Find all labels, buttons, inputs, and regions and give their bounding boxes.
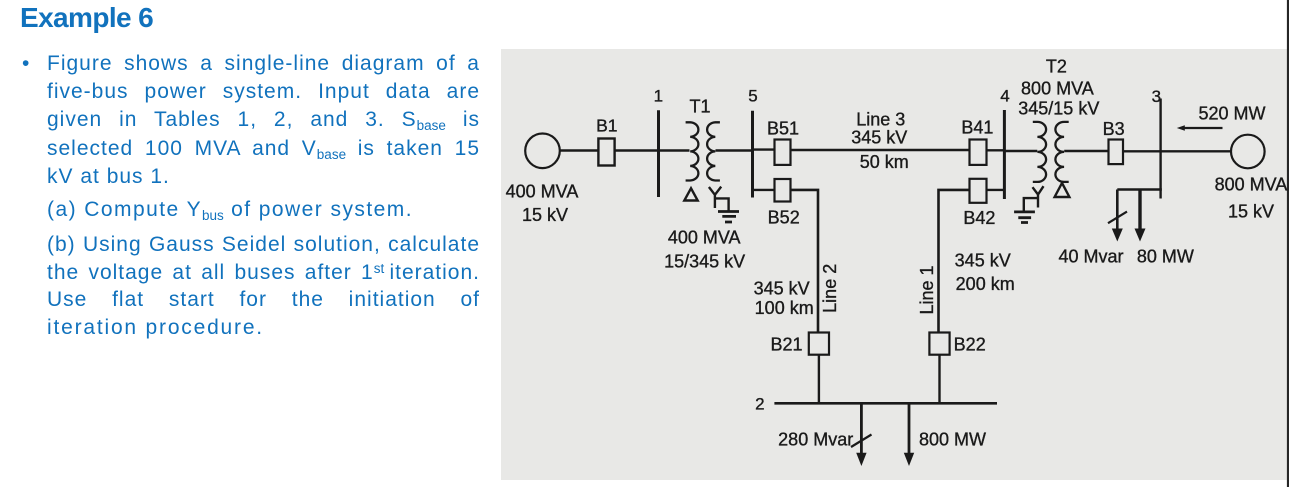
- svg-text:B1: B1: [596, 116, 617, 136]
- svg-text:200 km: 200 km: [956, 274, 1015, 294]
- svg-text:B21: B21: [770, 334, 802, 354]
- breaker B52: [775, 179, 791, 202]
- transformer T1 primary winding: [686, 122, 699, 180]
- svg-text:Line 2: Line 2: [820, 264, 840, 313]
- svg-text:800 MW: 800 MW: [919, 430, 986, 450]
- svg-text:400 MVA: 400 MVA: [506, 181, 579, 201]
- wire T1 to bus 5: [716, 149, 753, 151]
- svg-text:100 km: 100 km: [755, 298, 814, 318]
- 520 MW arrowhead: [1177, 125, 1185, 131]
- svg-text:B41: B41: [961, 117, 993, 137]
- wire B3 through bus 3 to G2: [1123, 150, 1231, 152]
- svg-text:4: 4: [1000, 87, 1009, 106]
- generator G2 circle: [1231, 135, 1265, 169]
- wire bus 4 to T2: [1004, 150, 1037, 152]
- svg-text:520 MW: 520 MW: [1198, 104, 1265, 124]
- svg-text:345 kV: 345 kV: [754, 278, 810, 298]
- svg-text:345 kV: 345 kV: [851, 127, 907, 147]
- svg-text:T2: T2: [1046, 56, 1067, 76]
- bus 4 bar: [1003, 110, 1006, 199]
- svg-text:345/15 kV: 345/15 kV: [1018, 99, 1099, 119]
- wire bus 5 to B52: [753, 189, 775, 191]
- T2 ground: [1014, 212, 1035, 223]
- breaker B22: [929, 333, 949, 355]
- svg-text:345 kV: 345 kV: [955, 251, 1011, 271]
- T2 wye symbol: [1024, 186, 1044, 211]
- bus 1 bar: [657, 110, 660, 197]
- T1 wye symbol: [709, 187, 729, 211]
- 280 Mvar arrowhead: [856, 453, 866, 466]
- svg-text:15 kV: 15 kV: [1228, 201, 1274, 221]
- svg-text:1: 1: [654, 87, 663, 106]
- 40 Mvar arrowhead: [1112, 229, 1123, 242]
- breaker B21: [809, 333, 829, 355]
- svg-text:5: 5: [748, 87, 757, 106]
- svg-text:40 Mvar: 40 Mvar: [1058, 246, 1123, 266]
- svg-text:280 Mvar: 280 Mvar: [778, 430, 853, 450]
- wire B22 to bus 2: [938, 355, 940, 404]
- 800 MW load arrow shaft: [908, 403, 911, 455]
- 280 Mvar slash: [851, 435, 872, 448]
- generator G1 circle: [525, 134, 560, 169]
- svg-text:B51: B51: [767, 119, 799, 139]
- svg-text:3: 3: [1152, 87, 1161, 106]
- T2 delta symbol: [1055, 183, 1070, 197]
- svg-text:800 MVA: 800 MVA: [1215, 175, 1288, 195]
- svg-text:2: 2: [755, 395, 764, 414]
- 80 MW load arrow shaft: [1138, 190, 1141, 230]
- svg-text:800 MVA: 800 MVA: [1021, 79, 1094, 99]
- transformer T1 secondary winding: [707, 122, 720, 180]
- 800 MW arrowhead: [904, 453, 914, 466]
- wire B42 corner into Line 1: [939, 190, 970, 333]
- svg-text:B42: B42: [963, 208, 995, 228]
- wire Line 3 from B51 to B41: [791, 149, 970, 151]
- 520 MW arrow line: [1184, 127, 1223, 129]
- breaker B41: [970, 140, 987, 165]
- 40 Mvar slash: [1108, 212, 1127, 224]
- transformer T2 secondary winding: [1055, 122, 1068, 182]
- 80 MW arrowhead: [1135, 229, 1146, 242]
- breaker B42: [970, 179, 987, 203]
- T1 ground: [718, 212, 739, 223]
- wire B41 to bus 4: [987, 149, 1005, 151]
- breaker B3: [1109, 140, 1124, 165]
- svg-text:B52: B52: [768, 208, 800, 228]
- svg-text:B3: B3: [1103, 119, 1125, 139]
- svg-text:Line 3: Line 3: [856, 109, 905, 129]
- bus 2 bar: [774, 402, 997, 405]
- svg-text:400 MVA: 400 MVA: [668, 228, 741, 248]
- bus 3 bar: [1159, 99, 1161, 199]
- wire B42 to bus 4: [987, 189, 1005, 191]
- transformer T2 primary winding: [1033, 122, 1046, 182]
- wire B21 to bus 2: [818, 355, 820, 404]
- svg-text:15/345 kV: 15/345 kV: [664, 251, 745, 271]
- svg-text:15 kV: 15 kV: [522, 205, 568, 225]
- svg-text:Line 1: Line 1: [917, 265, 937, 314]
- wire bus 3 load tap: [1117, 190, 1162, 230]
- page right border bar: [1287, 0, 1289, 487]
- svg-text:80 MW: 80 MW: [1137, 246, 1194, 266]
- svg-text:T1: T1: [689, 97, 710, 117]
- wire B52 corner into Line 2: [791, 190, 819, 333]
- T1 delta symbol: [684, 188, 697, 200]
- wire B1 to bus 1: [614, 149, 659, 151]
- 280 Mvar load arrow shaft: [860, 403, 863, 455]
- breaker B51: [775, 140, 791, 165]
- wire G1 to B1: [560, 149, 599, 151]
- breaker B1: [598, 139, 614, 166]
- svg-text:50 km: 50 km: [860, 152, 909, 172]
- wire T2 to B3: [1064, 150, 1108, 152]
- wire bus 1 to T1: [659, 149, 690, 151]
- svg-text:B22: B22: [954, 334, 986, 354]
- wire bus 5 to B51: [753, 148, 775, 150]
- bus 5 bar: [751, 111, 754, 198]
- diagram background panel: [501, 49, 1287, 480]
